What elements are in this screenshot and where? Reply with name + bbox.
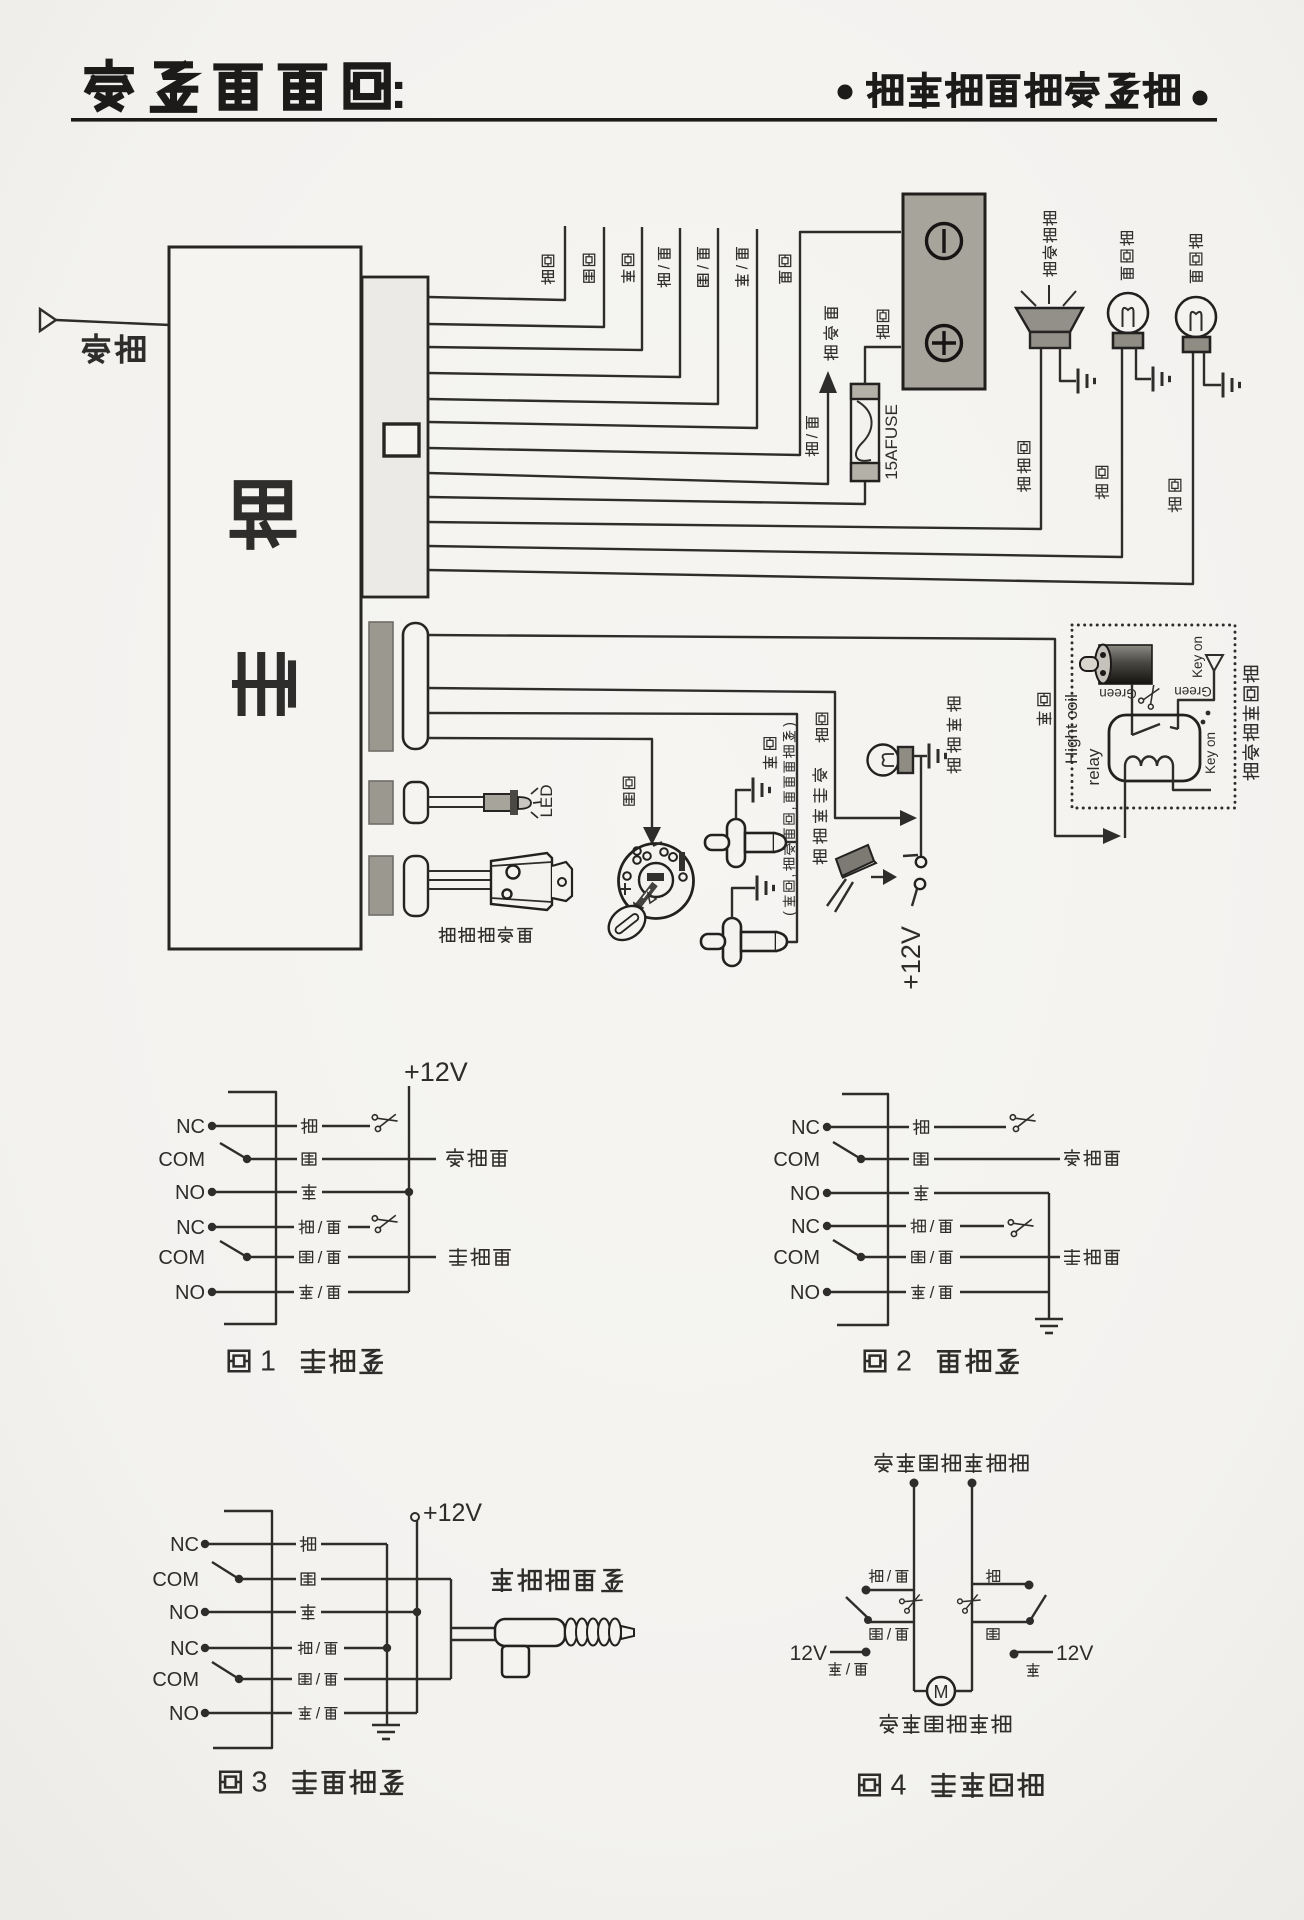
图2 label 开信号 [1065, 1249, 1119, 1264]
wire 橙色 [428, 226, 565, 300]
wire 棕色 to lamp1 [428, 349, 1122, 557]
svg-text:COM: COM [158, 1149, 205, 1171]
wire 棕色 to lamp2 [428, 353, 1193, 584]
label (车门，行李箱门，前盖负触发) [782, 722, 798, 916]
label 棕色 1 [1095, 466, 1108, 498]
图2 bracket [837, 1094, 888, 1325]
图1 caption 图1 正触发 [229, 1346, 382, 1378]
lamp1 right lead to ground [1136, 348, 1151, 379]
svg-text:): ) [782, 722, 798, 727]
wire to fuse [428, 482, 865, 504]
svg-text:/: / [316, 1705, 321, 1722]
svg-text:M: M [934, 1682, 949, 1702]
label 蓝色 [763, 738, 776, 769]
svg-text:NC: NC [791, 1216, 820, 1238]
label 白色 [583, 254, 594, 282]
ignition switch [619, 844, 694, 919]
antenna symbol [40, 309, 56, 331]
svg-text:LED: LED [537, 784, 556, 817]
图4 left wire [910, 1479, 919, 1488]
door pin switch 2 [723, 918, 741, 966]
svg-text:NC: NC [176, 1116, 205, 1138]
battery box [903, 194, 985, 389]
ground (brake light) [928, 744, 931, 769]
ground wire (switch2) [732, 888, 755, 918]
battery plus terminal [927, 326, 962, 361]
svg-text:COM: COM [152, 1669, 199, 1691]
svg-text:(: ( [782, 911, 798, 916]
header rule [71, 118, 1217, 122]
svg-text:+12V: +12V [423, 1499, 482, 1527]
lamp2 right lead to ground [1204, 352, 1221, 385]
relay coil leads [1124, 766, 1126, 838]
wire 橙/黑 [428, 228, 680, 377]
door lock motor 电动锁马达 [495, 1619, 565, 1646]
label 行李箱 [824, 307, 838, 360]
label 棕色 2 [1168, 479, 1181, 511]
connector block 1 [362, 277, 428, 597]
label 橙/黑 [656, 248, 673, 287]
label 橙色 [542, 255, 555, 284]
图2 ground rail [1048, 1193, 1050, 1319]
图4 title 原车中控电机线 [875, 1454, 1028, 1472]
label 黄色 (relay wire) [1037, 693, 1051, 724]
svg-text:/: / [930, 1248, 935, 1267]
label 白色 (key) [623, 777, 634, 805]
connector strip 2 [369, 622, 393, 751]
label 黄/黑 [734, 248, 751, 287]
图3 rail 3 (motor) [450, 1579, 452, 1679]
图3 rail 1 (ground) [386, 1544, 388, 1725]
svg-text:relay: relay [1084, 748, 1103, 785]
svg-text:Key on: Key on [1203, 732, 1218, 774]
turn lamp 方向灯 1 [1108, 293, 1148, 333]
label 电动锁马达 [492, 1569, 622, 1591]
橙/黑 branch [866, 1589, 914, 1591]
fuse body 15AFUSE [851, 384, 879, 481]
svg-text:NO: NO [175, 1182, 205, 1204]
svg-text:,: , [782, 806, 798, 810]
main unit 主机 box [169, 247, 361, 949]
svg-text:/: / [316, 1640, 321, 1657]
main unit label 主 [236, 656, 292, 712]
sensor connector strip [369, 856, 393, 915]
pedal arrow [871, 876, 884, 878]
siren right lead to ground [1060, 348, 1076, 381]
ground (siren) [1077, 369, 1080, 394]
relay pin wires [1131, 684, 1133, 735]
brake switch contacts [903, 855, 918, 856]
label 引擎断电回路 [1243, 666, 1259, 779]
svg-text:NC: NC [176, 1217, 205, 1239]
relay coil [1125, 757, 1173, 767]
lamp2 label 方向灯 [1189, 235, 1202, 283]
ground (lamp2) [1222, 373, 1225, 398]
svg-text:/: / [804, 433, 821, 438]
橙 branch [972, 1583, 1029, 1585]
left switch blade [846, 1597, 868, 1618]
wire 橙色 to brake switch [428, 688, 901, 818]
图4 right wire [968, 1479, 977, 1488]
图3 bracket [213, 1511, 272, 1748]
svg-text:/: / [930, 1283, 935, 1302]
svg-text:12V: 12V [1056, 1642, 1093, 1665]
svg-text:/: / [316, 1671, 321, 1688]
svg-text:NC: NC [170, 1534, 199, 1556]
label 黄色 [622, 254, 635, 282]
svg-text:COM: COM [152, 1569, 199, 1591]
svg-text:12V: 12V [790, 1642, 827, 1665]
svg-text:/: / [846, 1661, 851, 1678]
svg-text:NO: NO [790, 1282, 820, 1304]
svg-text:Hight coil: Hight coil [1062, 694, 1081, 764]
relay body [1109, 715, 1200, 781]
wire 白/黑 [428, 228, 718, 404]
label 白/黑 [695, 248, 712, 287]
svg-text:+12V: +12V [404, 1057, 468, 1087]
svg-text::: : [390, 62, 407, 120]
svg-text:/: / [318, 1283, 323, 1302]
wire 蓝色 door switches bus [428, 713, 797, 942]
ground (图3) [372, 1724, 400, 1727]
engine-cut relay box (dotted) [1072, 625, 1235, 808]
svg-text:/: / [887, 1568, 892, 1585]
sensor connector pill [404, 856, 428, 916]
图1 label 开信号 [450, 1249, 510, 1266]
trunk arrow head [819, 371, 837, 393]
图2 caption 图2 负触发 [865, 1346, 1018, 1378]
图4 caption 图4 正电回路 [859, 1770, 1042, 1802]
sensor wires [428, 870, 491, 872]
wire 白色 [428, 227, 604, 327]
svg-text:15AFUSE: 15AFUSE [882, 404, 901, 480]
wire 黄色 [428, 227, 642, 350]
main unit label 机 [234, 484, 293, 546]
brake pedal [836, 845, 874, 876]
lamp1 label 方向灯 [1120, 232, 1133, 280]
label 橙色 (brake) [816, 713, 829, 742]
svg-text:NO: NO [169, 1602, 199, 1624]
connector notch [384, 424, 419, 456]
label 红色 [877, 310, 890, 339]
door pin switch 1 [727, 819, 745, 867]
shock sensor 振动传感器 body [491, 853, 552, 910]
battery minus terminal [927, 224, 962, 259]
connector pill 2 [403, 623, 428, 749]
brake light ground wire [913, 755, 927, 757]
turn lamp 方向灯 2 [1176, 297, 1216, 337]
图1 bracket [224, 1092, 276, 1324]
brake switch vertical wire [920, 756, 922, 857]
图1 label 关信号 [447, 1149, 507, 1166]
svg-text:4: 4 [891, 1770, 907, 1802]
svg-text:/: / [930, 1217, 935, 1236]
svg-text:NC: NC [170, 1638, 199, 1660]
ground (lamp1) [1152, 367, 1155, 392]
wire 红/黑 trunk [428, 392, 828, 484]
图3 caption 图3 正负触发 [220, 1767, 402, 1799]
ground (switch1) [752, 778, 755, 803]
wire 粉红色 to siren [428, 349, 1041, 529]
svg-text:COM: COM [773, 1149, 820, 1171]
label 红/黑 [804, 417, 821, 456]
图3 rail 2 (+12V) [416, 1521, 418, 1713]
header right 汽车防盗报警系统 [838, 85, 853, 100]
antenna label 天线 [84, 335, 144, 362]
ground (switch2) [756, 876, 759, 901]
brake light 脚刹车灯 [868, 745, 899, 776]
wire 白色 to ignition key [428, 738, 652, 828]
svg-text:/: / [656, 264, 673, 269]
svg-text:2: 2 [896, 1346, 912, 1378]
LED wires [428, 796, 484, 798]
label 原车中控电机 [880, 1715, 1010, 1733]
svg-text:/: / [887, 1626, 892, 1643]
label 脚刹车灯 [947, 697, 961, 773]
wire 黄/黑 [428, 229, 757, 428]
svg-text:,: , [782, 874, 798, 878]
svg-text:NO: NO [169, 1703, 199, 1725]
central lock motor M [927, 1677, 955, 1705]
motor wires [451, 1627, 495, 1629]
right switch blade [1031, 1595, 1046, 1619]
svg-text:NO: NO [175, 1282, 205, 1304]
siren label 报警喇叭 [1043, 212, 1056, 277]
svg-text:/: / [318, 1248, 323, 1267]
svg-text:Key on: Key on [1190, 636, 1205, 678]
label 黑色 [779, 255, 791, 283]
图2 label 关信号 [1065, 1150, 1119, 1166]
label 脚刹车开关 [813, 769, 827, 864]
svg-text:COM: COM [773, 1247, 820, 1269]
ground wire (switch1) [736, 790, 751, 819]
12V right [1010, 1650, 1019, 1659]
LED body [484, 794, 511, 811]
key-on antenna triangle [1206, 655, 1223, 671]
key in switch [647, 873, 664, 881]
wire 黑色 to battery [428, 232, 901, 455]
LED connector strip [369, 781, 393, 824]
svg-text:/: / [318, 1218, 323, 1237]
fuse top wire to battery [865, 347, 901, 384]
svg-text:NC: NC [791, 1117, 820, 1139]
svg-text:+12V: +12V [896, 926, 926, 990]
svg-text:1: 1 [260, 1346, 276, 1378]
svg-text:/: / [695, 264, 712, 269]
antenna wire [56, 320, 170, 325]
svg-text:COM: COM [158, 1247, 205, 1269]
svg-text:NO: NO [790, 1183, 820, 1205]
ground (图2) [1035, 1318, 1063, 1321]
siren 报警喇叭 [1016, 308, 1083, 332]
ignition coil Hight coil [1099, 645, 1152, 684]
svg-text:3: 3 [252, 1767, 268, 1799]
svg-text:Green: Green [1174, 684, 1212, 699]
wire cut scissors [1138, 682, 1164, 710]
label 粉红色 [1017, 442, 1030, 492]
header title 安装示意图: [88, 62, 387, 109]
wire 黄色 to relay [428, 635, 1105, 836]
svg-text:/: / [734, 264, 751, 269]
图1 +12V rail [408, 1086, 410, 1292]
LED connector pill [404, 782, 428, 823]
sensor label 振动传感器 [439, 927, 532, 942]
